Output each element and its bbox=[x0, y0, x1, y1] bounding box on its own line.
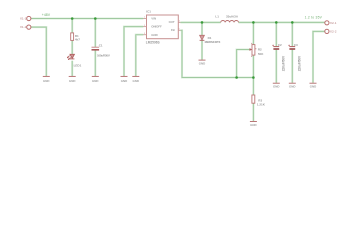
svg-text:GND: GND bbox=[250, 123, 257, 127]
svg-text:GND: GND bbox=[310, 84, 317, 88]
svg-text:33uH/3A: 33uH/3A bbox=[226, 15, 239, 19]
svg-text:100uF/50V: 100uF/50V bbox=[97, 53, 110, 57]
svg-text:VIN: VIN bbox=[151, 17, 156, 21]
svg-text:1.2 to 35V: 1.2 to 35V bbox=[305, 15, 323, 19]
svg-text:C2: C2 bbox=[278, 43, 282, 47]
svg-text:X2-1: X2-1 bbox=[330, 21, 337, 25]
svg-text:ON/OFF: ON/OFF bbox=[151, 25, 162, 29]
svg-text:GND: GND bbox=[92, 79, 99, 83]
svg-text:220uF/50V: 220uF/50V bbox=[298, 55, 302, 71]
svg-text:OUT: OUT bbox=[169, 20, 175, 24]
svg-text:GND: GND bbox=[151, 33, 157, 37]
svg-text:FB: FB bbox=[171, 28, 175, 32]
svg-text:GND: GND bbox=[133, 79, 140, 83]
svg-text:X2-2: X2-2 bbox=[330, 30, 337, 34]
svg-text:X1-1: X1-1 bbox=[20, 17, 27, 21]
svg-text:IC1: IC1 bbox=[146, 10, 151, 14]
svg-text:GND: GND bbox=[121, 79, 128, 83]
svg-text:4k7: 4k7 bbox=[75, 37, 80, 41]
svg-text:L1: L1 bbox=[215, 15, 219, 19]
svg-text:X1-2: X1-2 bbox=[20, 25, 27, 29]
svg-text:LM2596S: LM2596S bbox=[146, 41, 160, 45]
svg-text:220uF/50V: 220uF/50V bbox=[282, 55, 286, 71]
svg-text:LED1: LED1 bbox=[74, 63, 82, 67]
svg-text:1.21K: 1.21K bbox=[257, 102, 266, 106]
svg-text:C3: C3 bbox=[294, 43, 298, 47]
svg-text:GND: GND bbox=[199, 61, 206, 65]
svg-text:C1: C1 bbox=[99, 43, 103, 47]
svg-text:GND: GND bbox=[289, 84, 296, 88]
svg-text:+48V: +48V bbox=[42, 13, 51, 17]
svg-text:50K: 50K bbox=[258, 52, 264, 56]
svg-text:GND: GND bbox=[69, 79, 76, 83]
svg-text:GND: GND bbox=[273, 84, 280, 88]
svg-text:GND: GND bbox=[43, 79, 50, 83]
svg-text:MBRS340T3: MBRS340T3 bbox=[205, 40, 221, 44]
